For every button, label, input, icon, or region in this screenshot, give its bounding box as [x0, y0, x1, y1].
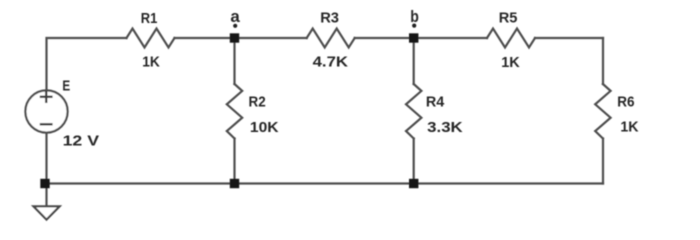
node b marker dot — [412, 24, 416, 28]
resistor R2 — [227, 84, 242, 139]
wire to ground — [45, 184, 47, 207]
svg-text:a: a — [230, 8, 240, 26]
wire top-left corner from source to R1 — [47, 38, 127, 90]
junction square bottom under R4 — [409, 179, 418, 188]
resistor R1 — [127, 29, 175, 48]
svg-text:R4: R4 — [426, 94, 445, 111]
wire right side down to R6 — [602, 38, 604, 84]
svg-text:R6: R6 — [617, 94, 634, 111]
wire R6 to bottom-right corner — [602, 139, 604, 184]
svg-text:3.3K: 3.3K — [427, 119, 463, 136]
svg-text:1K: 1K — [142, 54, 160, 71]
node a junction square — [230, 33, 239, 42]
node a marker dot — [233, 24, 237, 28]
svg-text:1K: 1K — [620, 118, 638, 135]
voltage source plus sign — [40, 91, 53, 125]
svg-text:4.7K: 4.7K — [313, 53, 349, 70]
ground — [34, 206, 60, 219]
svg-text:1K: 1K — [501, 54, 520, 71]
junction square bottom-left — [40, 179, 49, 188]
wire R4 to bottom rail — [413, 139, 415, 184]
wire node a down to R2 — [233, 38, 235, 84]
wire source bottom to bottom rail — [45, 133, 47, 184]
wire R1 to node a and on to R3 — [175, 37, 307, 39]
resistor R3 — [307, 29, 355, 48]
junction square bottom under R2 — [230, 179, 239, 188]
node b junction square — [409, 33, 418, 42]
resistor R6 — [595, 84, 610, 139]
wire R5 to top-right corner — [535, 37, 603, 39]
wire R3 to node b and on to R5 — [355, 37, 487, 39]
resistor R4 — [406, 84, 421, 139]
wire R2 to bottom rail — [233, 139, 235, 184]
wire node b down to R4 — [413, 38, 415, 84]
svg-text:b: b — [410, 8, 419, 26]
resistor R5 — [487, 29, 535, 48]
svg-text:R2: R2 — [249, 94, 266, 111]
wire bottom rail — [46, 182, 604, 184]
svg-text:12 V: 12 V — [63, 132, 99, 149]
voltage source minus sign — [40, 123, 53, 125]
svg-text:E: E — [62, 78, 70, 95]
svg-text:R5: R5 — [499, 10, 518, 27]
svg-text:R3: R3 — [320, 10, 339, 27]
svg-text:10K: 10K — [250, 119, 279, 136]
svg-text:R1: R1 — [141, 10, 158, 27]
voltage source E circle — [25, 90, 67, 132]
